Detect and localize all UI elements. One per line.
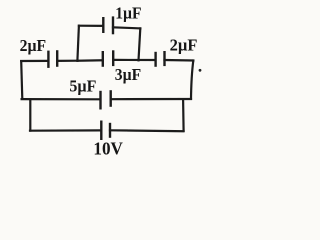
- wire top branch right: [113, 27, 140, 28]
- wire node A vertical riser: [77, 26, 79, 61]
- wire from C1 to node A: [57, 60, 77, 62]
- svg-text:3µF: 3µF: [115, 65, 141, 84]
- capacitor C1 2uF left plates: [48, 51, 57, 66]
- wire left top segment: [21, 60, 48, 62]
- wire node B vertical drop: [139, 28, 141, 60]
- svg-text:10V: 10V: [93, 138, 123, 158]
- capacitor C4 2uF right plates: [156, 52, 165, 65]
- wire battery row left: [30, 129, 101, 132]
- wire battery row right: [110, 129, 184, 132]
- svg-text:2µF: 2µF: [20, 36, 46, 55]
- wire battery loop left vertical: [29, 99, 31, 130]
- wire 5uF row right: [111, 98, 191, 100]
- wire C3 to C4 through node B: [113, 59, 155, 61]
- wire battery loop right vertical: [182, 100, 185, 131]
- capacitor C5 5uF plates: [101, 91, 111, 108]
- wire node A to C3: [78, 59, 103, 62]
- wire top branch left: [79, 25, 103, 27]
- wire 5uF row left: [22, 98, 100, 100]
- svg-text:5µF: 5µF: [69, 77, 96, 96]
- capacitor C2 1uF plates: [103, 18, 113, 33]
- capacitor C3 3uF plates: [103, 52, 113, 66]
- wire left vertical to 5uF row: [21, 61, 22, 99]
- wire right vertical to 5uF row: [191, 61, 193, 99]
- wire C4 to right corner: [165, 59, 194, 62]
- svg-text:1µF: 1µF: [115, 3, 141, 22]
- svg-text:2µF: 2µF: [170, 36, 198, 55]
- stray dot mark: [199, 69, 202, 72]
- battery V1 10V plates: [101, 122, 110, 139]
